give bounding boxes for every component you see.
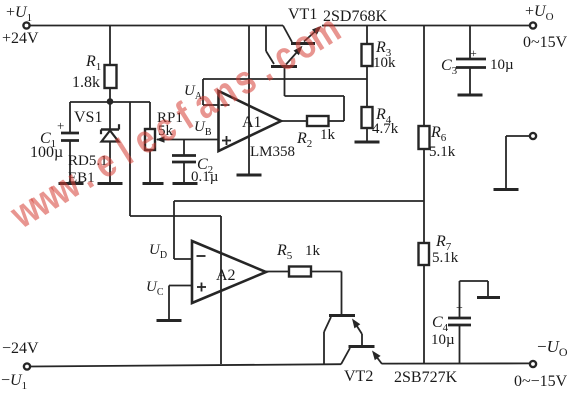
svg-text:−U1: −U1 <box>1 372 27 392</box>
svg-text:100µ: 100µ <box>30 144 63 161</box>
svg-text:10k: 10k <box>373 55 396 71</box>
svg-text:10µ: 10µ <box>490 57 514 73</box>
svg-text:2SB727K: 2SB727K <box>394 369 458 386</box>
svg-text:10µ: 10µ <box>431 332 455 348</box>
svg-text:R6: R6 <box>430 124 447 144</box>
svg-text:A2: A2 <box>216 267 236 284</box>
svg-text:4.7k: 4.7k <box>372 121 399 137</box>
svg-text:5.1k: 5.1k <box>432 250 459 266</box>
svg-text:0.1µ: 0.1µ <box>191 169 219 185</box>
svg-text:1k: 1k <box>305 243 321 259</box>
svg-text:5.1k: 5.1k <box>429 144 456 160</box>
svg-text:−UO: −UO <box>537 337 568 359</box>
svg-text:UD: UD <box>149 242 167 261</box>
svg-text:A1: A1 <box>242 114 262 131</box>
svg-text:UC: UC <box>146 279 164 298</box>
svg-text:+: + <box>57 118 64 133</box>
svg-text:VT2: VT2 <box>344 368 373 385</box>
svg-text:1k: 1k <box>320 127 336 143</box>
svg-text:0~−15V: 0~−15V <box>514 373 568 390</box>
svg-text:R1: R1 <box>85 53 101 73</box>
svg-text:+UO: +UO <box>525 3 554 23</box>
svg-text:R2: R2 <box>296 130 312 150</box>
svg-text:VS1: VS1 <box>74 109 102 126</box>
svg-text:C4: C4 <box>432 314 449 334</box>
svg-text:+: + <box>456 300 463 314</box>
svg-text:R5: R5 <box>276 242 293 262</box>
svg-text:C3: C3 <box>441 57 458 77</box>
svg-text:0~15V: 0~15V <box>523 34 568 51</box>
svg-text:+24V: +24V <box>2 30 39 47</box>
svg-text:LM358: LM358 <box>250 144 295 160</box>
svg-text:1.8k: 1.8k <box>72 74 100 91</box>
svg-text:+U1: +U1 <box>6 4 32 24</box>
svg-text:+: + <box>470 46 477 60</box>
svg-text:−24V: −24V <box>2 340 39 357</box>
